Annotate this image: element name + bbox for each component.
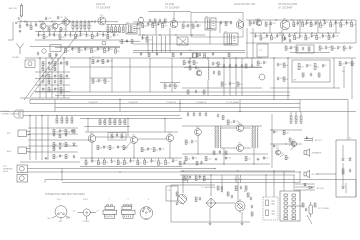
wire S2 link <box>133 28 140 30</box>
svg-text:SPEAKER: SPEAKER <box>3 168 13 171</box>
inductor L5 <box>208 60 209 80</box>
resistor R91 <box>104 120 106 125</box>
resistor R36 <box>131 40 133 44</box>
resistor R40 <box>249 21 251 25</box>
wire S6 rail <box>180 57 270 59</box>
svg-text:103: 103 <box>214 63 217 65</box>
capacitor C railC11 <box>297 21 299 25</box>
wire railA23 lead 3 <box>53 32 55 35</box>
capacitor C65 <box>59 154 61 158</box>
resistor R S10 low0 <box>85 161 87 165</box>
wire rail C <box>246 19 356 21</box>
jack J2 <box>18 147 31 154</box>
svg-text:0.047: 0.047 <box>99 48 103 50</box>
capacitor C24e <box>220 21 222 25</box>
wire R82 drop <box>61 116 63 119</box>
transistor Q16 <box>276 150 281 155</box>
svg-text:TX 2SC945F: TX 2SC945F <box>96 6 111 9</box>
wire railC2 lead 3 <box>270 33 272 36</box>
wire S6 vx2 <box>251 58 253 64</box>
wire bus left drop <box>29 100 31 104</box>
junction net dot 12 <box>323 19 324 20</box>
wire S7 vert5 <box>351 58 353 99</box>
capacitor C79 <box>191 140 193 144</box>
svg-text:473: 473 <box>99 34 102 36</box>
transistor Q11 <box>131 137 138 144</box>
svg-text:100: 100 <box>113 161 116 163</box>
wire S12 rail <box>270 129 302 131</box>
wire S10 rail4 <box>80 166 182 168</box>
capacitor C railC15 <box>315 21 317 25</box>
wire Q2-Q3 link <box>58 23 63 25</box>
resistor R railC23 <box>270 36 272 40</box>
junction dot C324 <box>323 19 324 20</box>
wire railA23 lead 13 <box>107 32 109 35</box>
capacitor C45 <box>97 59 99 63</box>
wire S10 low lead 4 <box>111 158 113 161</box>
resistor R railC21 <box>260 36 262 40</box>
svg-text:102: 102 <box>239 84 242 86</box>
wire railC2 lead 1 <box>260 33 262 36</box>
resistor R57 <box>48 75 50 79</box>
svg-text:103: 103 <box>106 50 109 52</box>
wire S10 rail <box>80 118 182 120</box>
wire lamp lead 0 <box>182 175 184 179</box>
box det <box>292 60 330 82</box>
wire S16 wire3 <box>295 189 315 191</box>
wire S10 rail2b <box>84 126 130 128</box>
arrow R106 <box>295 123 297 124</box>
resistor R63 <box>104 79 106 83</box>
svg-text:0.01: 0.01 <box>119 163 122 165</box>
capacitor C S10 low7 <box>129 159 131 163</box>
svg-text:220: 220 <box>316 67 319 69</box>
wire bottom wire 1 <box>28 168 216 170</box>
wire railA23 lead 2 <box>49 32 51 35</box>
resistor R59 <box>48 88 50 92</box>
resistor R95 <box>124 120 126 125</box>
capacitor C40c <box>48 67 50 71</box>
wire stub A70 <box>69 20 71 22</box>
resistor R57b <box>48 80 50 84</box>
wire S3 v5 <box>335 20 337 33</box>
wire strip vert <box>345 183 347 193</box>
resistor R51 <box>343 46 345 50</box>
svg-text:0.01: 0.01 <box>247 158 250 160</box>
resistor R74 <box>221 82 223 86</box>
wire ladder tail 4 <box>88 29 90 32</box>
wire stub A63 <box>62 20 64 22</box>
resistor R railB21 <box>146 38 148 42</box>
wire pwr v1 <box>209 208 211 222</box>
resistor Rb2 <box>121 134 123 138</box>
junction net dot 6 <box>163 21 164 22</box>
wire S12 to strip <box>316 173 336 175</box>
wire S6 rail2 <box>182 87 262 89</box>
diode D5 <box>73 143 76 145</box>
capacitor C18 <box>187 24 189 28</box>
resistor R railA237 <box>75 34 77 38</box>
capacitor C railA230 <box>37 33 39 37</box>
wire bus jog 55 <box>54 100 56 112</box>
svg-text:680: 680 <box>347 63 350 65</box>
svg-text:102: 102 <box>161 149 164 151</box>
svg-text:47: 47 <box>61 156 63 158</box>
wire S4 vert x46 <box>45 58 47 98</box>
junction net dot 54 <box>237 170 238 171</box>
junction net dot 21 <box>191 34 192 35</box>
resistor R railC14 <box>310 22 312 26</box>
wire rail D3b <box>35 91 70 93</box>
wire bus jog 300 <box>299 100 301 112</box>
wire ladder tail 0 <box>72 29 74 32</box>
capacitor C S10 low1 <box>91 159 93 163</box>
resistor R72 <box>217 62 219 66</box>
wire S11 rail <box>182 125 262 127</box>
wire railC1 lead 3 <box>306 20 308 22</box>
capacitor C85 <box>189 175 191 179</box>
capacitor C pwr top0 <box>199 175 201 179</box>
wire S2 v2 <box>155 22 157 35</box>
junction net dot 17 <box>99 31 100 32</box>
wire S11 drop 194 <box>193 112 195 115</box>
svg-text:0.047: 0.047 <box>207 158 211 160</box>
junction dot A70 <box>69 21 70 22</box>
resistor R88 <box>65 143 67 147</box>
resistor R27 <box>164 19 166 23</box>
resistor R58b <box>60 80 62 84</box>
resistor R20 <box>107 27 109 33</box>
resistor R85 <box>53 130 55 134</box>
trimmer TC3 <box>102 41 106 45</box>
wire pwr drop 5 <box>273 171 275 197</box>
resistor R S10 low2 <box>97 161 99 165</box>
wire S9 rail3b <box>28 145 78 147</box>
wire ladder2 drop 2 <box>115 25 117 28</box>
junction net dot 30 <box>89 57 90 58</box>
plug P1 <box>14 110 23 118</box>
wire railC2 lead 7 <box>294 33 296 36</box>
wire Q13 base wire <box>197 135 199 154</box>
junction net dot 56 <box>273 170 274 171</box>
wire S6 rail3 <box>184 67 262 69</box>
wire bottom wire 3 <box>45 179 356 181</box>
resistor R S10 low5 <box>117 161 119 165</box>
connector CN1 (mic plug view) <box>52 206 70 220</box>
wire Q14-T5 <box>244 127 251 129</box>
capacitor C41b <box>42 80 44 84</box>
wire S9 rail3 <box>28 139 90 141</box>
capacitor C railC24 <box>276 34 278 38</box>
capacitor C55d <box>213 71 215 75</box>
wire railC1 lead 5 <box>315 20 317 22</box>
capacitor C railB20 <box>141 36 143 40</box>
junction net dot 37 <box>29 115 30 116</box>
svg-text:B1: B1 <box>97 211 99 213</box>
resistor R97 <box>123 146 125 150</box>
wire railA23 lead 14 <box>113 32 115 35</box>
svg-text:AF OUT: AF OUT <box>315 139 323 142</box>
resistor R railC213 <box>328 35 330 39</box>
resistor R32 <box>182 24 184 28</box>
svg-text:102: 102 <box>62 89 65 91</box>
wire left stub <box>8 39 13 41</box>
junction net dot 33 <box>223 57 224 58</box>
pot arrow 1 <box>289 141 293 146</box>
wire pwr v3 <box>221 175 223 190</box>
wire S10 low lead 3 <box>103 158 105 160</box>
capacitor C75 <box>192 156 194 160</box>
wire railC1 lead 0 <box>293 20 295 23</box>
capacitor C S10 low10 <box>150 159 152 163</box>
junction net dot 13 <box>341 19 342 20</box>
resistor R railA46 <box>104 48 106 52</box>
wire railA4 lead 4 <box>90 47 92 49</box>
svg-text:47: 47 <box>67 34 69 36</box>
wire long rail E4 <box>55 95 290 97</box>
diode D2 <box>349 158 352 160</box>
svg-text:100: 100 <box>88 35 91 37</box>
resistor R83 <box>66 118 68 123</box>
capacitor C8206 <box>205 113 207 117</box>
junction net dot 49 <box>253 163 254 164</box>
lamp PL1 <box>182 179 185 183</box>
capacitor C5236 <box>235 64 237 68</box>
wire railA23 lead 6 <box>69 32 71 35</box>
wire bottom wire far right <box>355 180 357 198</box>
diode D4 <box>309 186 312 189</box>
resistor R56b <box>54 67 56 71</box>
junction dot A52 <box>51 21 52 22</box>
svg-text:102: 102 <box>155 149 158 151</box>
resistor R61 <box>102 60 104 64</box>
wire S7 rail <box>270 57 356 59</box>
svg-text:102: 102 <box>55 156 58 158</box>
wire bottom wire 4 <box>62 182 300 184</box>
resistor R S10 low8 <box>137 161 139 165</box>
svg-text:103: 103 <box>292 47 295 49</box>
capacitor C35 <box>349 46 351 50</box>
connector CN4 (plug view) <box>121 205 135 218</box>
wire S9 rail <box>23 115 180 117</box>
meter M2 <box>235 199 245 213</box>
resistor R railC16 <box>320 23 322 27</box>
svg-text:H B R: H B R <box>83 199 88 201</box>
wire railB1 lead 3 <box>152 22 154 23</box>
capacitor C24b <box>156 52 158 56</box>
wire stub A40 <box>39 20 41 22</box>
capacitor C77 <box>263 156 265 160</box>
capacitor C63 <box>71 129 73 133</box>
capacitor C25 <box>253 21 255 25</box>
resistor R74f <box>187 90 189 94</box>
wire left col <box>12 22 14 40</box>
ground Gp2 <box>241 223 244 226</box>
junction net dot 44 <box>91 157 92 158</box>
svg-text:CONNECTOR VIEW (BOTTOM VIEW): CONNECTOR VIEW (BOTTOM VIEW) <box>45 194 85 196</box>
resistor R93 <box>114 120 116 125</box>
transistor Q14 <box>237 125 244 132</box>
wire S16 wire4 <box>288 205 303 207</box>
resistor R S10 low3 <box>103 160 105 164</box>
resistor R115 <box>184 176 186 180</box>
junction net dot 36 <box>287 57 288 58</box>
wire S10 low lead 9 <box>144 158 146 160</box>
wire S12 rail2 <box>270 143 302 145</box>
wire R105 drop <box>290 112 292 117</box>
wire S10 drop 120 <box>119 119 121 121</box>
junction net dot 48 <box>223 163 224 164</box>
capacitor C railC212 <box>322 34 324 38</box>
capacitor C48 <box>169 84 171 88</box>
transistor Q13 <box>195 129 202 136</box>
resistor Rb1 <box>111 134 113 138</box>
wire railC2 lead 4 <box>276 33 278 35</box>
capacitor C68 <box>59 146 61 150</box>
wire railC2 lead 11 <box>316 33 318 35</box>
wire railC1 lead 4 <box>310 20 312 22</box>
svg-text:0.01: 0.01 <box>275 146 278 148</box>
transistor Q3 <box>63 19 69 25</box>
wire drop x27 <box>26 22 28 25</box>
svg-text:47: 47 <box>351 47 353 49</box>
capacitor C railA239 <box>85 34 87 38</box>
wire S10 low lead 7 <box>130 158 132 161</box>
wire R84 drop <box>71 116 73 119</box>
capacitor C58 <box>277 63 279 67</box>
junction net dot 32 <box>207 57 208 58</box>
capacitor C41 <box>42 74 44 78</box>
wire railA4 lead 1 <box>71 47 73 49</box>
rectifier bridge BR1 <box>206 198 216 208</box>
wire S7 vert1 <box>273 58 275 100</box>
jack J4 <box>17 175 28 183</box>
transistor Q17 <box>291 141 296 146</box>
svg-text:680: 680 <box>296 37 299 39</box>
wire S6 vert 242 <box>241 58 243 96</box>
wire pwr drop 2 <box>210 175 212 196</box>
wire pwr drop 1 <box>182 175 184 193</box>
svg-text:47: 47 <box>87 163 89 165</box>
junction net dot 35 <box>273 57 274 58</box>
wire S11 v2 <box>253 148 255 164</box>
capacitor Ct2 <box>200 161 202 165</box>
capacitor C22 <box>199 53 201 57</box>
resistor R110 <box>342 169 344 174</box>
wire Q1-Q2 link <box>46 25 52 27</box>
capacitor C14 <box>159 19 161 23</box>
elcap C90 <box>309 202 313 217</box>
junction net dot 46 <box>169 157 170 158</box>
wire pwr drop 4 <box>265 175 267 197</box>
junction net dot 52 <box>182 170 183 171</box>
junction dot C276 <box>275 19 276 20</box>
svg-text:CONNECTOR SIDE: CONNECTOR SIDE <box>1 114 20 116</box>
wire railC2 lead 14 <box>332 33 334 36</box>
relay box K1 <box>177 37 188 45</box>
svg-text:47: 47 <box>185 62 187 64</box>
wire S10 low lead 11 <box>158 158 160 161</box>
wire lamp lead 3 <box>240 175 242 179</box>
svg-text:47: 47 <box>187 142 189 144</box>
switch contact S1a <box>18 18 20 20</box>
resistor R railB11 <box>142 24 144 28</box>
junction net dot 25 <box>311 32 312 33</box>
resistor R117 <box>195 197 197 202</box>
svg-text:0.01: 0.01 <box>262 38 265 40</box>
wire railA23 lead 7 <box>75 32 77 35</box>
resistor R119 <box>176 192 178 196</box>
transistor Q12 <box>167 135 174 142</box>
capacitor C55e <box>251 64 253 68</box>
junction net dot 2 <box>65 21 66 22</box>
wire S6 vert 230 <box>229 58 231 96</box>
svg-text:47: 47 <box>199 25 201 27</box>
resistor R84 <box>71 118 73 123</box>
wire S5 vert x90 <box>89 58 91 92</box>
wire S3 vert long1 <box>246 28 248 58</box>
coil box L1 <box>50 45 61 52</box>
resistor R74b <box>237 82 239 86</box>
wire drop x95a <box>94 20 96 23</box>
svg-text:ANT SW: ANT SW <box>9 7 17 10</box>
capacitor C3 <box>35 23 37 27</box>
capacitor C72 <box>147 147 149 151</box>
wire S16 wire1 <box>295 183 315 185</box>
resistor R41 <box>265 22 267 26</box>
capacitor C railA45 <box>97 47 99 51</box>
wire long rail E2 <box>70 66 262 68</box>
resistor R53 <box>308 47 310 51</box>
wire rail B3 <box>133 43 232 45</box>
resistor R railC10 <box>293 23 295 27</box>
junction net dot 24 <box>295 32 296 33</box>
wire S16 pointer <box>307 215 312 224</box>
junction dot A92 <box>91 21 92 22</box>
osc coil L2 <box>138 17 143 22</box>
resistor R38 <box>204 54 206 58</box>
dashed box regulator <box>263 197 278 220</box>
wire rail C2 <box>250 32 340 34</box>
regulator parts <box>266 200 275 216</box>
capacitor C55b <box>229 82 231 86</box>
svg-text:103: 103 <box>164 25 167 27</box>
wire fold diagonal <box>30 34 78 97</box>
wire railC2 lead 5 <box>282 33 284 36</box>
lamp PL2 <box>186 179 189 183</box>
wire S11 rail3 <box>180 163 270 165</box>
capacitor C24c <box>180 52 182 56</box>
svg-text:680: 680 <box>333 48 336 50</box>
svg-text:473: 473 <box>167 162 170 164</box>
wire S10 v3 <box>164 119 166 133</box>
wire ladder2 drop 1 <box>111 25 113 28</box>
junction net dot 18 <box>143 34 144 35</box>
svg-text:100: 100 <box>106 162 109 164</box>
wire railA23 lead 10 <box>91 32 93 35</box>
capacitor C56 <box>306 64 308 68</box>
resistor R64 <box>164 84 166 88</box>
svg-text:TX ANT/B: TX ANT/B <box>128 101 138 104</box>
resistor R14 <box>88 23 90 29</box>
resistor R75 <box>298 64 300 70</box>
wire L5 bot <box>207 80 209 96</box>
wire S10 rail2 <box>85 131 178 133</box>
resistor R11 <box>76 23 78 29</box>
junction net dot 19 <box>159 34 160 35</box>
svg-text:100: 100 <box>285 65 288 67</box>
capacitor C43 <box>42 87 44 91</box>
